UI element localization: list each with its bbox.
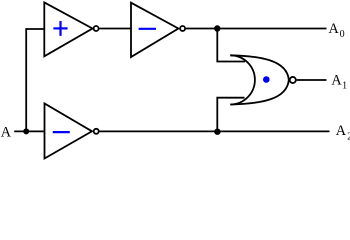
svg-text:0: 0 xyxy=(340,29,345,40)
svg-text:A: A xyxy=(336,123,347,139)
svg-text:A: A xyxy=(1,125,12,141)
svg-text:A: A xyxy=(331,72,342,88)
svg-text:1: 1 xyxy=(342,81,347,92)
svg-text:A: A xyxy=(329,21,340,37)
